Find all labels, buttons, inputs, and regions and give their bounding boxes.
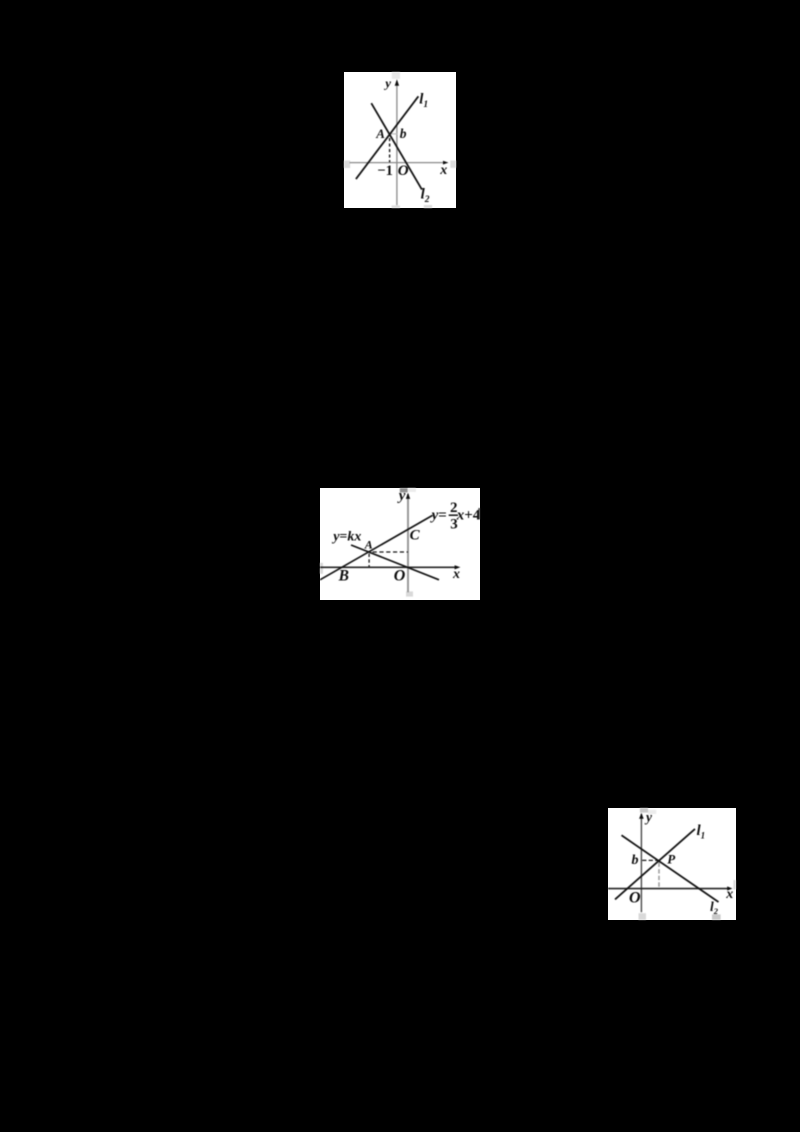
svg-text:x: x: [439, 163, 447, 178]
y-axis: [640, 814, 642, 912]
figure 2: y=kx and y=2/3x+4: [320, 488, 480, 600]
svg-text:y=kx: y=kx: [331, 529, 361, 544]
tick b on y-axis: [391, 132, 398, 134]
cut-off stroke at right edge: [478, 508, 480, 519]
svg-text:l1: l1: [696, 823, 705, 840]
x-axis: [350, 161, 445, 163]
line l1 (positive slope): [356, 96, 418, 179]
dashed drop from A to x-axis: [368, 553, 370, 566]
svg-text:A: A: [375, 126, 385, 141]
line l2 (negative slope): [371, 103, 422, 189]
line y=kx through O: [351, 545, 439, 580]
line l1 (positive slope): [615, 829, 695, 899]
scan mark bottom under y-axis: [638, 913, 645, 920]
scan mark bottom under l2: [712, 914, 721, 919]
svg-text:−1: −1: [377, 162, 393, 178]
scan mark faint top: [648, 810, 656, 814]
dashed drop from A to x-axis: [389, 138, 391, 162]
svg-text:b: b: [631, 853, 638, 868]
line l2 (negative slope): [621, 835, 718, 902]
svg-text:x+4: x+4: [456, 507, 480, 523]
figure 3: lines l1,l2 crossing at P: [608, 808, 736, 920]
scan mark top edge: [640, 808, 648, 813]
svg-text:O: O: [398, 163, 409, 179]
scan mark top edge: [392, 72, 400, 79]
scan mark right edge: [450, 160, 456, 167]
scan mark bottom: [406, 591, 413, 596]
svg-text:x: x: [452, 567, 460, 582]
scan mark bottom under y-axis: [392, 205, 400, 208]
svg-text:A: A: [364, 537, 373, 551]
svg-text:C: C: [410, 527, 421, 543]
svg-text:y: y: [383, 75, 391, 90]
x-axis: [320, 566, 456, 568]
svg-text:l1: l1: [419, 91, 428, 109]
dashed drop from P to x-axis: [658, 862, 660, 887]
svg-text:y: y: [397, 488, 406, 504]
scan mark bottom under l2: [424, 205, 432, 208]
scan mark faint top: [408, 488, 416, 492]
dashed horizontal from A to y-axis: [373, 551, 408, 553]
svg-text:l2: l2: [421, 186, 430, 204]
svg-text:b: b: [400, 126, 407, 141]
scan mark left edge: [344, 160, 350, 167]
svg-text:O: O: [394, 567, 406, 584]
svg-text:P: P: [667, 851, 676, 866]
x-axis: [608, 887, 728, 889]
y-axis: [396, 81, 398, 205]
line y=(2/3)x+4 through B and C: [320, 515, 432, 579]
scan mark right edge: [733, 880, 735, 889]
svg-text:x: x: [725, 887, 733, 902]
svg-text:y=: y=: [430, 507, 447, 523]
scan mark left edge: [320, 563, 323, 574]
svg-text:y: y: [644, 809, 653, 824]
dashed horizontal b to P: [642, 859, 657, 861]
scan mark dark top block: [400, 488, 408, 492]
svg-text:O: O: [629, 889, 641, 906]
svg-text:B: B: [338, 567, 349, 584]
y-axis: [407, 494, 409, 592]
figure 1: lines l1,l2 crossing at A above x=-1: [344, 72, 456, 208]
